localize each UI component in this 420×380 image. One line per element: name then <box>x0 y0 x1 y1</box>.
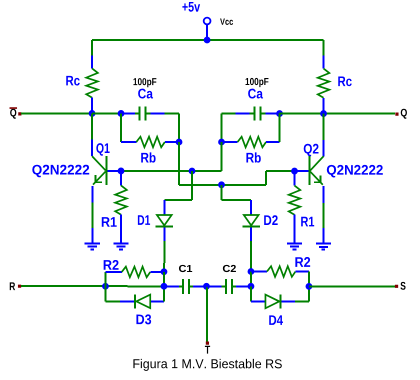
wire R row <box>21 285 164 287</box>
terminal R <box>10 282 21 290</box>
node R2 left junction <box>102 283 109 290</box>
ground Q1 emitter <box>85 243 100 249</box>
wire R2 column left <box>163 272 165 287</box>
ground R1 right <box>287 244 302 250</box>
terminal S <box>395 282 406 290</box>
transistor Q2 Q2N2222 <box>294 114 382 204</box>
terminal T <box>205 341 210 353</box>
node D1 tap <box>189 168 196 175</box>
ground R1 left <box>113 243 128 249</box>
caption Figura 1 <box>133 359 281 371</box>
wire T drop <box>206 286 208 341</box>
node Rb right input <box>218 139 225 146</box>
wire coupling right Rb to Q1 base <box>106 142 221 171</box>
capacitor C2 <box>206 265 251 294</box>
wire S row <box>309 285 395 287</box>
Vcc label <box>220 19 233 25</box>
capacitor C1 <box>164 265 207 294</box>
resistor R2 (left) <box>104 260 164 286</box>
capacitor Ca (left) 100pF <box>121 78 165 120</box>
resistor R1 (left) <box>102 171 127 243</box>
node T junction <box>203 283 210 290</box>
wire Q1 emitter down <box>91 202 93 242</box>
node S junction <box>306 283 313 290</box>
node C2 right junction <box>248 283 255 290</box>
node Ca left junction <box>118 110 125 117</box>
wire collector node to Ca <box>92 112 121 114</box>
node Rb left output <box>176 139 183 146</box>
resistor Rb (left) <box>121 137 179 163</box>
diode D3 <box>105 286 164 324</box>
capacitor Ca (right) 100pF <box>222 78 280 121</box>
wire coupling left Rb to Q2 base <box>179 142 295 185</box>
diode D2 <box>221 185 277 272</box>
resistor R2 (right) <box>251 257 310 286</box>
node D2 R2 junction <box>248 268 255 275</box>
wire Vcc stub <box>206 24 208 40</box>
power +5v label <box>182 2 200 12</box>
wire top rail <box>92 39 323 41</box>
node Q2 base junction <box>291 168 298 175</box>
resistor Rc (right) <box>318 40 352 114</box>
wire Q collector row <box>280 113 396 115</box>
node Q2 collector <box>320 110 327 117</box>
node Vcc junction <box>204 37 211 44</box>
node D2 tap <box>218 181 225 188</box>
wire Ca right column down <box>221 114 223 142</box>
node D1 R2 junction <box>161 268 168 275</box>
wire Ca-left-node down to Rb <box>120 113 122 141</box>
diode D4 <box>251 286 309 325</box>
node C1 left junction <box>161 283 168 290</box>
node Q1 base junction <box>118 168 125 175</box>
terminal Qbar <box>10 107 22 118</box>
node Q1 collector <box>89 110 96 117</box>
wire Ca left to coupling column <box>165 113 179 142</box>
transistor Q1 Q2N2222 <box>32 113 109 202</box>
node Ca right junction <box>276 110 283 117</box>
wire R2 column right <box>250 272 252 287</box>
resistor Rb (right) <box>222 137 280 163</box>
resistor R1 (right) <box>289 171 315 243</box>
ground Q2 emitter <box>316 244 331 250</box>
wire Q2 emitter down <box>322 203 324 243</box>
diode D1 <box>138 171 192 272</box>
Vcc port circle <box>204 18 211 25</box>
wire Qbar to Rc <box>21 112 92 114</box>
wire Rb right up to collector <box>279 114 281 142</box>
terminal Q <box>395 109 407 119</box>
resistor Rc (left) <box>66 40 98 114</box>
